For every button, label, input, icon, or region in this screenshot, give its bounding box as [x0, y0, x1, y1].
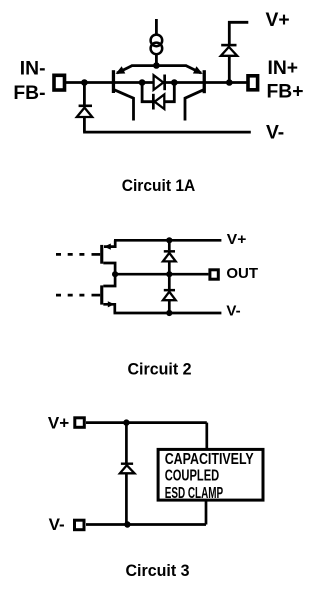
svg-text:Circuit 1A: Circuit 1A: [122, 177, 196, 195]
svg-text:IN-: IN-: [20, 59, 46, 80]
svg-text:V-: V-: [226, 302, 240, 319]
svg-text:Circuit 2: Circuit 2: [128, 360, 192, 378]
svg-text:V+: V+: [227, 231, 247, 248]
svg-text:OUT: OUT: [226, 265, 258, 282]
svg-text:IN+: IN+: [268, 58, 299, 79]
svg-text:V+: V+: [266, 10, 290, 31]
svg-text:V-: V-: [49, 515, 65, 534]
svg-text:COUPLED: COUPLED: [165, 468, 220, 485]
svg-text:Circuit 3: Circuit 3: [126, 562, 190, 580]
svg-text:CAPACITIVELY: CAPACITIVELY: [165, 451, 254, 468]
svg-text:FB+: FB+: [267, 82, 304, 103]
svg-text:FB-: FB-: [13, 83, 45, 104]
svg-text:V-: V-: [266, 122, 284, 143]
svg-text:ESD CLAMP: ESD CLAMP: [165, 485, 224, 502]
svg-text:V+: V+: [48, 414, 69, 433]
